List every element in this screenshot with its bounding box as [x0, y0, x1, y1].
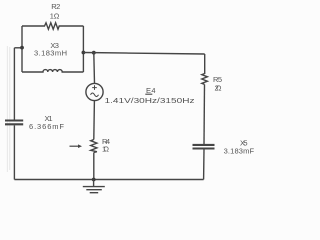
node right junction: [82, 51, 86, 55]
svg-text:6.366mF: 6.366mF: [29, 122, 64, 131]
svg-text:1.41V/30Hz/3150Hz: 1.41V/30Hz/3150Hz: [105, 96, 195, 105]
wire mid branch lower: [93, 153, 95, 180]
svg-text:3.183mH: 3.183mH: [34, 49, 67, 58]
svg-text:R5: R5: [213, 75, 222, 84]
scan ghost lines: [7, 46, 10, 172]
wire bottom horizontal: [14, 179, 203, 181]
arrow current marker: [70, 145, 79, 147]
wire right rail middle: [203, 84, 206, 144]
capacitor X5: [193, 145, 215, 149]
svg-text:1Ω: 1Ω: [102, 145, 109, 154]
ground: [83, 180, 105, 193]
capacitor X1: [5, 121, 23, 125]
wire combo left vertical: [21, 26, 23, 72]
node left junction: [20, 46, 24, 50]
svg-text:1Ω: 1Ω: [50, 12, 60, 21]
resistor R5: [202, 54, 208, 84]
node mid junction: [92, 51, 96, 55]
resistor R2: [22, 23, 83, 29]
wire left rail lower: [13, 125, 15, 179]
wire combo right vertical: [82, 26, 84, 72]
wire right rail lower: [203, 149, 205, 179]
svg-text:3.183mF: 3.183mF: [224, 146, 255, 155]
wire mid branch upper: [93, 53, 96, 84]
resistor R4: [91, 140, 97, 153]
node bottom junction: [92, 178, 96, 182]
wire top horizontal: [83, 53, 204, 55]
wire mid branch middle: [93, 101, 96, 140]
wire left connector: [14, 47, 22, 49]
svg-text:2Ω: 2Ω: [215, 84, 222, 93]
wire left rail upper: [13, 48, 15, 120]
inductor X3: [22, 70, 83, 72]
svg-text:R2: R2: [51, 2, 60, 11]
ac source E4: [86, 83, 103, 100]
